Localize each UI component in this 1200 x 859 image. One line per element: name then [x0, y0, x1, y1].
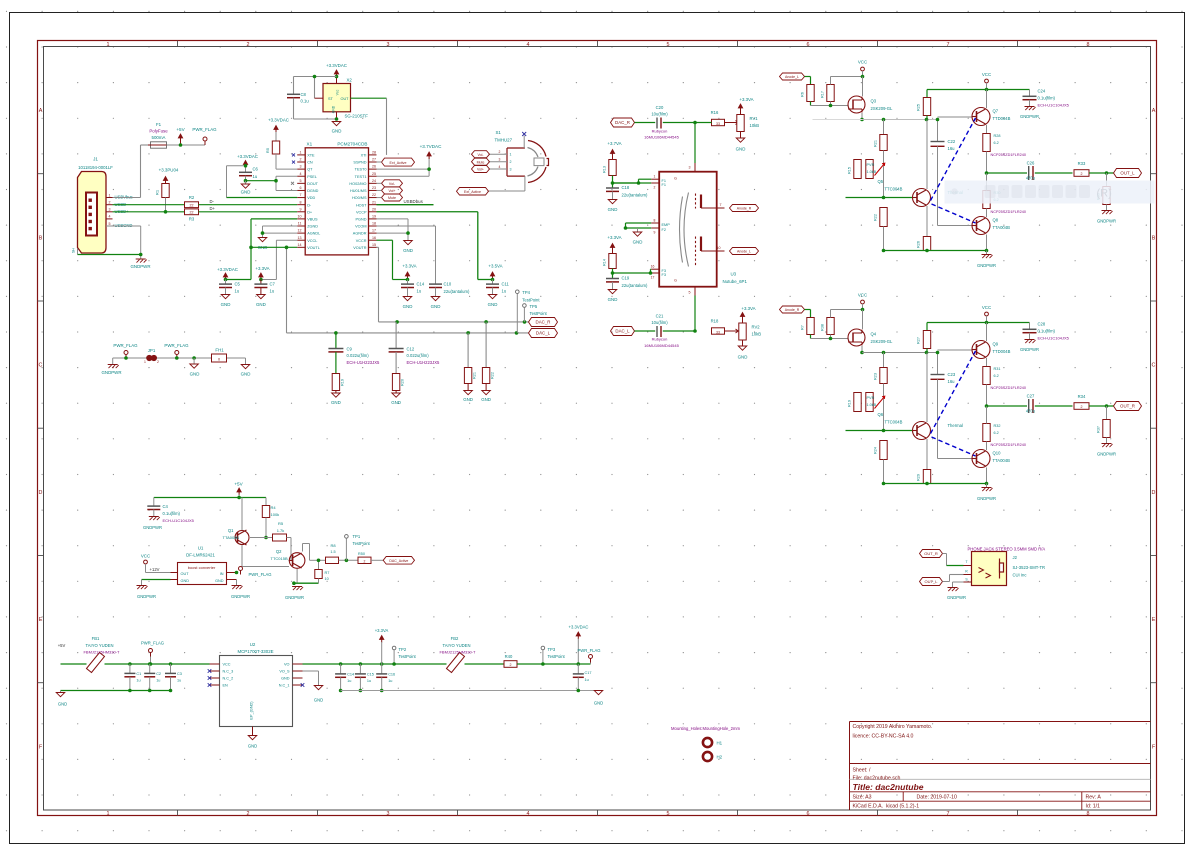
svg-text:8: 8: [654, 219, 656, 223]
svg-text:TAIYO YUDEN: TAIYO YUDEN: [86, 643, 114, 648]
svg-text:R7: R7: [801, 325, 805, 330]
svg-text:Thermal: Thermal: [948, 423, 963, 428]
svg-text:D: D: [1152, 490, 1156, 496]
svg-text:R32: R32: [994, 424, 1001, 428]
svg-text:Anode_R: Anode_R: [737, 207, 752, 211]
svg-text:9: 9: [300, 207, 302, 211]
svg-text:PWR_FLAG: PWR_FLAG: [192, 127, 217, 132]
svg-text:Rev: A: Rev: A: [1086, 795, 1102, 801]
svg-text:R16: R16: [711, 110, 719, 115]
svg-text:4: 4: [300, 172, 302, 176]
svg-text:470u: 470u: [1026, 175, 1036, 180]
svg-text:boost converter: boost converter: [188, 565, 216, 570]
svg-text:TTD004B: TTD004B: [993, 116, 1011, 121]
svg-text:4: 4: [527, 811, 530, 817]
svg-text:1.0kB: 1.0kB: [867, 403, 877, 407]
svg-text:Q7: Q7: [993, 109, 999, 114]
svg-text:1u: 1u: [136, 679, 140, 683]
svg-text:10u(film): 10u(film): [651, 112, 668, 117]
svg-text:R28: R28: [994, 134, 1001, 138]
svg-text:GNDPWR: GNDPWR: [1097, 452, 1116, 457]
svg-text:R40: R40: [505, 654, 513, 659]
svg-text:R13: R13: [603, 166, 607, 173]
svg-text:File: dac2nutube.sch: File: dac2nutube.sch: [853, 776, 901, 782]
svg-text:PGND: PGND: [356, 217, 367, 221]
svg-text:F1: F1: [156, 122, 162, 127]
svg-text:R18: R18: [711, 319, 719, 324]
svg-text:F1: F1: [662, 183, 666, 187]
svg-text:1u: 1u: [177, 679, 181, 683]
svg-text:C: C: [1152, 363, 1156, 369]
svg-text:J1: J1: [93, 157, 98, 162]
svg-text:VCCP: VCCP: [356, 210, 367, 214]
svg-text:VCC: VCC: [858, 60, 867, 65]
svg-text:100k: 100k: [271, 512, 280, 517]
svg-text:X1: X1: [307, 142, 313, 147]
svg-text:Vol+: Vol+: [388, 189, 395, 193]
svg-text:GND: GND: [332, 129, 342, 134]
svg-text:1u: 1u: [235, 289, 240, 294]
svg-text:R26: R26: [917, 241, 921, 248]
svg-text:27: 27: [372, 158, 376, 162]
svg-text:GND: GND: [314, 698, 323, 703]
svg-text:TTA004B: TTA004B: [993, 225, 1011, 230]
svg-text:500mA: 500mA: [152, 135, 166, 140]
svg-text:+3.5VA: +3.5VA: [488, 264, 502, 269]
svg-text:VCCR: VCCR: [356, 239, 367, 243]
svg-text:+3.3VDAC: +3.3VDAC: [326, 63, 347, 68]
svg-text:5: 5: [667, 42, 670, 48]
svg-text:22: 22: [190, 211, 194, 215]
svg-text:C11: C11: [502, 282, 510, 287]
svg-text:2: 2: [157, 360, 159, 364]
svg-text:Vol+: Vol+: [477, 168, 484, 172]
svg-text:23: 23: [372, 186, 376, 190]
svg-text:C2: C2: [156, 672, 161, 676]
svg-text:Rubycon: Rubycon: [652, 129, 668, 134]
svg-text:XTE: XTE: [307, 154, 315, 158]
svg-text:licence: CC-BY-NC-SA 4.0: licence: CC-BY-NC-SA 4.0: [853, 734, 914, 740]
svg-text:GND: GND: [215, 579, 224, 583]
svg-text:C5: C5: [235, 282, 241, 287]
svg-text:C4: C4: [163, 504, 169, 509]
svg-text:16: 16: [651, 265, 655, 269]
svg-text:Anode_R: Anode_R: [785, 308, 800, 312]
svg-text:TestPoint: TestPoint: [399, 654, 417, 659]
svg-text:+3.3VDAC: +3.3VDAC: [217, 267, 238, 272]
svg-text:26: 26: [372, 165, 376, 169]
svg-text:(R): (R): [1097, 188, 1112, 200]
svg-text:2: 2: [1081, 172, 1083, 176]
svg-text:1.5: 1.5: [330, 550, 335, 554]
svg-text:DAC_L: DAC_L: [536, 331, 551, 336]
svg-text:1.7k: 1.7k: [277, 528, 285, 533]
svg-text:Title: dac2nutube: Title: dac2nutube: [853, 782, 924, 792]
svg-text:HO0/MS: HO0/MS: [352, 196, 367, 200]
svg-text:C7: C7: [270, 282, 276, 287]
svg-text:SH: SH: [72, 248, 76, 254]
svg-text:PVR: PVR: [867, 163, 875, 167]
svg-text:GNDPWR: GNDPWR: [1020, 114, 1039, 119]
svg-text:R6: R6: [801, 92, 805, 97]
svg-text:4: 4: [109, 215, 111, 219]
svg-text:C8: C8: [301, 92, 307, 97]
svg-text:+3.3VA: +3.3VA: [607, 235, 621, 240]
svg-text:B: B: [1152, 235, 1156, 241]
svg-text:X2: X2: [347, 78, 353, 83]
svg-text:10: 10: [298, 214, 302, 218]
svg-text:+3.3VDAC: +3.3VDAC: [268, 118, 289, 123]
svg-text:R4: R4: [271, 505, 277, 510]
svg-text:+5V: +5V: [176, 127, 185, 132]
svg-text:NCP25SZD1FLR240: NCP25SZD1FLR240: [991, 443, 1026, 447]
svg-text:8: 8: [1087, 811, 1090, 817]
svg-text:DOUT: DOUT: [307, 182, 318, 186]
svg-text:R27: R27: [917, 337, 921, 344]
svg-text:IN: IN: [220, 572, 224, 576]
svg-text:C21: C21: [656, 314, 664, 319]
svg-text:TTC004B: TTC004B: [885, 187, 903, 192]
svg-text:GNDPWR: GNDPWR: [130, 264, 150, 269]
svg-text:1u: 1u: [388, 679, 392, 683]
svg-text:HOST: HOST: [356, 203, 367, 207]
svg-text:TTC015B: TTC015B: [271, 556, 288, 561]
svg-text:2SK209-GL: 2SK209-GL: [871, 106, 894, 111]
svg-text:VCOM: VCOM: [355, 225, 366, 229]
svg-text:GND: GND: [190, 372, 200, 377]
svg-text:Mounting_Holes:MountingHole_2m: Mounting_Holes:MountingHole_2mm: [671, 726, 740, 731]
svg-text:8: 8: [300, 200, 302, 204]
svg-text:NCP25SZD1FLR240: NCP25SZD1FLR240: [991, 210, 1026, 214]
svg-text:NCP25SZD1FLR240: NCP25SZD1FLR240: [991, 386, 1026, 390]
svg-text:2: 2: [247, 811, 250, 817]
svg-text:R23: R23: [874, 373, 878, 380]
svg-text:C10: C10: [444, 282, 452, 287]
svg-text:C24: C24: [1038, 89, 1046, 94]
svg-text:D: D: [39, 490, 43, 496]
svg-text:SSPND: SSPND: [353, 161, 366, 165]
svg-text:Mute: Mute: [388, 196, 396, 200]
svg-text:2: 2: [1081, 405, 1083, 409]
svg-text:C9: C9: [347, 347, 353, 352]
svg-text:Q1: Q1: [228, 528, 234, 533]
svg-text:22: 22: [372, 193, 376, 197]
svg-text:1: 1: [107, 811, 110, 817]
svg-text:VCC: VCC: [982, 305, 991, 310]
svg-text:12: 12: [298, 229, 302, 233]
svg-text:GND: GND: [488, 302, 498, 307]
svg-text:USBDbus: USBDbus: [404, 199, 424, 204]
svg-text:DF-LMR62421: DF-LMR62421: [186, 553, 215, 558]
svg-text:RV1: RV1: [750, 116, 759, 121]
svg-text:TestPoint: TestPoint: [522, 298, 540, 303]
svg-text:GND: GND: [181, 579, 190, 583]
svg-text:OUT_L: OUT_L: [925, 579, 939, 584]
svg-text:PSEL: PSEL: [307, 175, 317, 179]
svg-text:G: G: [674, 279, 677, 283]
svg-text:+3.3VA: +3.3VA: [739, 97, 753, 102]
svg-text:GNDPWR: GNDPWR: [1097, 219, 1116, 224]
svg-text:G: G: [674, 177, 677, 181]
svg-text:C: C: [39, 363, 43, 369]
svg-text:21: 21: [372, 200, 376, 204]
svg-text:6: 6: [807, 42, 810, 48]
svg-text:17: 17: [651, 276, 655, 280]
svg-text:R38: R38: [821, 324, 825, 331]
svg-text:1u: 1u: [367, 679, 371, 683]
svg-text:GND: GND: [241, 372, 251, 377]
svg-text:19: 19: [372, 214, 376, 218]
svg-text:R25: R25: [917, 104, 921, 111]
svg-text:1u: 1u: [417, 289, 422, 294]
svg-text:0.022u(film): 0.022u(film): [407, 353, 430, 358]
svg-text:GNDPWR: GNDPWR: [977, 263, 996, 268]
svg-text:C12: C12: [407, 347, 415, 352]
svg-text:+3.3VDAC: +3.3VDAC: [237, 154, 258, 159]
svg-text:GND: GND: [331, 400, 341, 405]
svg-text:16: 16: [372, 236, 376, 240]
svg-text:25: 25: [372, 172, 376, 176]
svg-text:C23: C23: [948, 372, 956, 377]
svg-text:24: 24: [372, 179, 376, 183]
svg-text:1u: 1u: [585, 678, 589, 682]
svg-text:1: 1: [109, 193, 111, 197]
svg-text:GNDPWR: GNDPWR: [947, 595, 966, 600]
svg-text:Size: A3: Size: A3: [853, 795, 872, 801]
svg-text:C1: C1: [136, 672, 141, 676]
svg-text:R15: R15: [848, 167, 852, 174]
svg-text:FBMJ2125HM330-T: FBMJ2125HM330-T: [439, 650, 476, 655]
svg-text:6.2: 6.2: [994, 431, 999, 435]
svg-text:16u: 16u: [948, 146, 956, 151]
svg-text:TTA004B: TTA004B: [993, 458, 1011, 463]
svg-text:R33: R33: [1078, 161, 1086, 166]
svg-text:3: 3: [387, 811, 390, 817]
svg-text:0.1u(film): 0.1u(film): [1038, 329, 1056, 334]
svg-text:ECH-U1H223JX5: ECH-U1H223JX5: [407, 360, 440, 365]
svg-text:R1: R1: [155, 189, 160, 195]
svg-text:ZGND: ZGND: [307, 225, 318, 229]
svg-text:OUT: OUT: [181, 572, 190, 576]
svg-text:3: 3: [510, 168, 512, 172]
svg-text:11: 11: [298, 222, 302, 226]
svg-text:ECH-U1C104JX5: ECH-U1C104JX5: [163, 518, 195, 523]
svg-text:0.1u: 0.1u: [301, 99, 310, 104]
svg-text:2: 2: [654, 186, 656, 190]
svg-text:0: 0: [218, 358, 220, 362]
svg-text:10: 10: [717, 246, 721, 250]
svg-text:33: 33: [716, 122, 720, 126]
svg-text:1u: 1u: [502, 289, 507, 294]
svg-text:PWR_FLAG: PWR_FLAG: [141, 641, 164, 646]
svg-text:H1: H1: [717, 740, 723, 745]
svg-text:AGNDR: AGNDR: [353, 232, 367, 236]
svg-text:VBUS: VBUS: [307, 217, 318, 221]
svg-text:TP1: TP1: [353, 534, 361, 539]
svg-text:VO_S: VO_S: [279, 670, 290, 674]
svg-text:GND: GND: [738, 355, 748, 360]
svg-text:E: E: [1152, 617, 1156, 623]
svg-text:VO: VO: [284, 663, 290, 667]
svg-text:ECH-U1C104JX5: ECH-U1C104JX5: [1038, 336, 1070, 341]
svg-text:TP3: TP3: [548, 647, 556, 652]
svg-text:R2: R2: [189, 195, 195, 200]
svg-text:+3.3VA: +3.3VA: [255, 266, 269, 271]
svg-text:OUT_L: OUT_L: [1120, 171, 1135, 176]
svg-text:1: 1: [144, 360, 146, 364]
svg-text:GND: GND: [736, 147, 746, 152]
svg-text:PWR_FLAG: PWR_FLAG: [249, 572, 272, 577]
svg-text:Nutube_6P1: Nutube_6P1: [723, 279, 748, 284]
svg-text:C6: C6: [253, 167, 259, 172]
svg-text:PCM2704CDB: PCM2704CDB: [337, 142, 367, 147]
svg-text:KiCad E.D.A. kicad (5.1.2)-1: KiCad E.D.A. kicad (5.1.2)-1: [853, 804, 920, 810]
svg-text:NCP25SZD1FLR240: NCP25SZD1FLR240: [991, 153, 1026, 157]
svg-text:Q6: Q6: [878, 412, 884, 417]
svg-text:GNDPWR: GNDPWR: [101, 370, 121, 375]
svg-text:GND: GND: [241, 189, 251, 194]
svg-text:R17: R17: [821, 91, 825, 98]
svg-text:TP5: TP5: [530, 304, 538, 309]
svg-text:A: A: [1152, 108, 1156, 114]
svg-text:5: 5: [689, 291, 691, 295]
svg-text:15: 15: [372, 243, 376, 247]
svg-text:TP4: TP4: [522, 290, 530, 295]
svg-text:C20: C20: [656, 105, 664, 110]
svg-text:Q4: Q4: [871, 332, 877, 337]
svg-text:GND: GND: [594, 701, 603, 706]
svg-text:R37: R37: [1097, 426, 1101, 433]
svg-text:5: 5: [109, 222, 111, 226]
svg-text:PWR_FLAG: PWR_FLAG: [113, 343, 138, 348]
svg-text:R7: R7: [325, 571, 330, 575]
svg-text:A: A: [39, 108, 43, 114]
svg-text:3: 3: [387, 42, 390, 48]
svg-text:F3: F3: [662, 273, 666, 277]
svg-text:GND: GND: [403, 304, 413, 309]
svg-text:C17: C17: [585, 671, 592, 675]
svg-text:R5: R5: [265, 147, 270, 153]
svg-text:VOUTL: VOUTL: [307, 246, 320, 250]
svg-text:C14: C14: [417, 282, 425, 287]
svg-text:FH1: FH1: [215, 348, 224, 353]
svg-text:RV2: RV2: [752, 325, 761, 330]
svg-text:GNDPWR: GNDPWR: [285, 595, 304, 600]
svg-text:J2: J2: [1013, 555, 1018, 560]
svg-text:R22: R22: [874, 214, 878, 221]
svg-text:16u: 16u: [948, 379, 956, 384]
svg-text:GND: GND: [221, 302, 231, 307]
svg-text:6: 6: [807, 811, 810, 817]
svg-text:1u: 1u: [253, 174, 258, 179]
svg-text:0.1u(film): 0.1u(film): [163, 511, 181, 516]
svg-text:10118194-0001LF: 10118194-0001LF: [78, 165, 113, 170]
svg-text:Anode_L: Anode_L: [737, 250, 751, 254]
svg-text:DAC_Active: DAC_Active: [389, 559, 408, 563]
svg-text:PWR_FLAG: PWR_FLAG: [164, 343, 189, 348]
svg-text:0.022u(film): 0.022u(film): [347, 353, 370, 358]
svg-text:EP_(GND): EP_(GND): [250, 701, 254, 720]
svg-text:GND: GND: [256, 302, 266, 307]
svg-text:3: 3: [109, 208, 111, 212]
svg-text:B: B: [39, 235, 43, 241]
svg-text:Vol-: Vol-: [389, 182, 396, 186]
svg-text:GNDPWR: GNDPWR: [231, 594, 250, 599]
svg-text:+3.3PU04: +3.3PU04: [159, 168, 179, 173]
svg-text:GNDPWR: GNDPWR: [137, 594, 156, 599]
svg-text:C14: C14: [347, 673, 354, 677]
svg-text:13: 13: [298, 236, 302, 240]
svg-text:Mute: Mute: [477, 160, 485, 164]
svg-text:MCP1700T-3302E: MCP1700T-3302E: [237, 649, 273, 654]
svg-text:7: 7: [720, 203, 722, 207]
svg-text:22u(tantalum): 22u(tantalum): [622, 283, 648, 288]
svg-text:OUT_R: OUT_R: [924, 551, 938, 556]
svg-text:SJ-3523-SMT-TR: SJ-3523-SMT-TR: [1013, 565, 1046, 570]
svg-text:AGNDL: AGNDL: [307, 232, 320, 236]
svg-text:10kB: 10kB: [750, 123, 760, 128]
svg-text:Ext_Active: Ext_Active: [464, 190, 481, 194]
svg-text:2: 2: [499, 150, 501, 154]
svg-text:R22: R22: [491, 372, 495, 379]
svg-text:R34: R34: [1078, 394, 1086, 399]
svg-text:VCCL: VCCL: [307, 239, 317, 243]
svg-text:2: 2: [510, 663, 512, 667]
svg-text:GND: GND: [608, 297, 618, 302]
svg-text:GND: GND: [608, 207, 618, 212]
svg-text:TestPoint: TestPoint: [548, 654, 566, 659]
svg-text:Q2: Q2: [276, 549, 282, 554]
svg-text:SG-210STF: SG-210STF: [345, 114, 369, 119]
svg-text:R20: R20: [401, 379, 405, 386]
svg-text:1u: 1u: [347, 679, 351, 683]
svg-text:N.C_3: N.C_3: [223, 670, 234, 674]
svg-text:TTD004B: TTD004B: [993, 349, 1011, 354]
svg-text:C18: C18: [622, 185, 630, 190]
svg-text:C22: C22: [948, 139, 956, 144]
svg-text:Q5: Q5: [878, 179, 884, 184]
svg-text:33: 33: [716, 330, 720, 334]
svg-text:1: 1: [107, 42, 110, 48]
svg-text:2: 2: [510, 160, 512, 164]
svg-text:+5V: +5V: [234, 482, 243, 487]
svg-text:VCC: VCC: [141, 554, 150, 559]
svg-text:5: 5: [667, 811, 670, 817]
svg-text:C27: C27: [1027, 394, 1035, 399]
svg-text:R24: R24: [874, 447, 878, 454]
svg-text:7: 7: [300, 193, 302, 197]
svg-text:GND: GND: [332, 105, 336, 113]
svg-text:14: 14: [298, 243, 302, 247]
svg-text:17: 17: [372, 229, 376, 233]
svg-text:Copyright 2019 Akihiro Yamamot: Copyright 2019 Akihiro Yamamoto.: [853, 724, 933, 730]
svg-text:GND: GND: [481, 397, 491, 402]
svg-text:FBMJ2125HM330-T: FBMJ2125HM330-T: [83, 650, 120, 655]
svg-text:Ext_Active: Ext_Active: [390, 161, 407, 165]
svg-text:+3.3VA: +3.3VA: [741, 306, 755, 311]
svg-text:U2: U2: [250, 642, 256, 647]
svg-text:+3.7VA: +3.7VA: [607, 141, 621, 146]
svg-text:R19: R19: [341, 379, 345, 386]
svg-text:TP2: TP2: [399, 647, 407, 652]
svg-text:7: 7: [947, 42, 950, 48]
svg-text:TAIYO YUDEN: TAIYO YUDEN: [443, 643, 471, 648]
svg-text:16MU106MD44545: 16MU106MD44545: [644, 135, 679, 140]
svg-text:VDD: VDD: [307, 196, 315, 200]
svg-text:VOUTR: VOUTR: [353, 246, 367, 250]
svg-text:N.C_1: N.C_1: [279, 684, 290, 688]
svg-text:TEST0: TEST0: [355, 168, 367, 172]
